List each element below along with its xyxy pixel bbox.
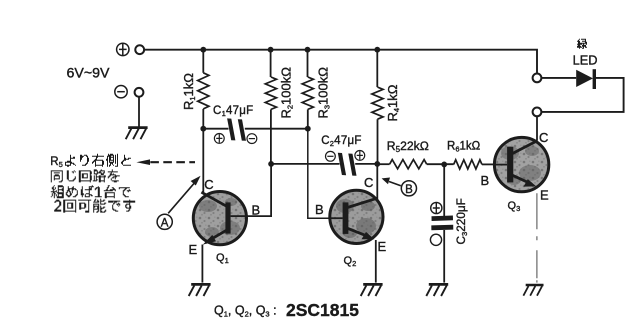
wire R6 to Q3 base: [482, 163, 495, 165]
svg-text:6V~9V: 6V~9V: [67, 66, 111, 82]
wire C1 net (Q1.C to Q2.B): [203, 128, 307, 130]
Q2 base wire inside: [331, 217, 343, 219]
wire minus terminal to ground: [138, 97, 140, 127]
node Q2 collector / C2 right: [374, 161, 380, 167]
wire C2 node to Q2 collector: [376, 164, 378, 200]
resistor R3: [302, 77, 313, 109]
LED diode triangle: [576, 70, 593, 87]
svg-text:B: B: [481, 173, 490, 188]
wire node to C3: [443, 164, 445, 216]
capacitor C3 (220uF) plates: [432, 216, 454, 222]
svg-text:LED: LED: [573, 52, 598, 67]
ground (Q3): [523, 285, 543, 296]
Q2 emitter stroke with arrow: [348, 228, 371, 237]
svg-text:R11kΩ: R11kΩ: [181, 73, 197, 110]
svg-text:C: C: [539, 130, 548, 145]
Q1 base bar: [225, 202, 230, 233]
wire LED socket to Q3 collector: [536, 116, 538, 140]
capacitor C1 (47uF) plates: [227, 118, 235, 140]
wire C3 to ground: [443, 230, 445, 283]
node rail-R3: [305, 47, 311, 53]
resistor R2: [265, 77, 276, 109]
wire Q2 emitter to ground: [375, 240, 377, 283]
svg-text:R2100kΩ: R2100kΩ: [279, 67, 295, 119]
Q3 collector stroke: [513, 141, 538, 154]
node Q2 base / C1 right: [305, 126, 311, 132]
wire R1 to node A1: [202, 109, 204, 129]
C2 minus mark: [326, 151, 336, 161]
wire R4 to Q2 collector node: [377, 119, 379, 164]
wire R1 node to Q1 collector: [202, 129, 204, 192]
svg-text:C247μF: C247μF: [321, 135, 361, 148]
LED socket terminal top: [533, 74, 542, 83]
svg-text:C147μF: C147μF: [213, 105, 253, 118]
svg-text:E: E: [378, 239, 387, 254]
svg-text:E: E: [189, 242, 198, 257]
Q1 emitter stroke with arrow: [206, 230, 227, 242]
label note line2: onaji kairo wo: [51, 169, 120, 182]
svg-text:B: B: [315, 202, 324, 217]
transistor Q1 (2SC1815) body: [193, 192, 246, 245]
terminal circle +: [135, 45, 144, 54]
dashed arrow (note pointer): [136, 159, 150, 165]
resistor R4: [372, 87, 383, 119]
svg-text:A: A: [161, 217, 169, 229]
svg-text:C: C: [364, 175, 373, 190]
wire C2 net (Q1.B to Q2.C): [271, 163, 377, 165]
ground (Q1): [189, 284, 211, 296]
svg-text:R3100kΩ: R3100kΩ: [316, 67, 332, 119]
node rail-R1: [200, 47, 206, 53]
svg-text:B: B: [252, 203, 261, 218]
minus supply symbol: [115, 86, 127, 98]
plus supply symbol: [117, 43, 129, 55]
Q1 collector stroke: [201, 192, 226, 206]
svg-text:C3220μF: C3220μF: [454, 198, 469, 244]
node rail-R2: [268, 47, 274, 53]
svg-text:E: E: [540, 188, 549, 203]
wire R2 to Q1 base node: [270, 109, 272, 163]
wire Q3 emitter to ground (faint): [536, 193, 538, 282]
wire rail to R4: [376, 50, 378, 87]
wire anode: [542, 77, 577, 79]
C1 plus mark: [214, 134, 224, 144]
ground (Q2): [361, 284, 383, 296]
LED cathode bar: [593, 69, 596, 89]
label midori (green) above LED: [577, 39, 587, 49]
wire Q2.C node to R5: [378, 163, 390, 165]
svg-text:R522kΩ: R522kΩ: [387, 139, 429, 154]
Q3 base bar: [507, 147, 513, 183]
svg-text:2SC1815: 2SC1815: [286, 300, 359, 320]
wire Q1 emitter to ground: [201, 245, 203, 283]
svg-text:C: C: [204, 177, 213, 192]
LED socket terminal bottom: [533, 108, 542, 117]
capacitor C2 (47uF) plates: [338, 153, 346, 175]
arrow B to Q2 collector: [389, 182, 401, 186]
Q2 collector stroke: [348, 198, 377, 207]
label note line4: 2 kai kanou desu: [54, 199, 135, 213]
transistor Q2 (2SC1815) body: [330, 190, 383, 243]
resistor R1: [198, 73, 209, 109]
C3 minus circle mark: [430, 234, 441, 245]
Q1 base wire inside: [231, 215, 247, 217]
C3 plus mark: [431, 202, 442, 213]
C1 minus mark: [247, 134, 257, 144]
wire rail to R3: [307, 50, 309, 77]
node Q1 collector: [200, 126, 206, 132]
Q3 emitter stroke with arrow: [513, 175, 532, 184]
wire R5 to node C3: [427, 163, 454, 165]
resistor R6: [454, 160, 482, 169]
C2 plus mark: [355, 151, 365, 161]
transistor Q3 (2SC1815) body: [494, 137, 548, 191]
terminal circle -: [135, 88, 144, 97]
circled A: [157, 214, 172, 229]
node Q1 base / C2 left: [268, 161, 274, 167]
wire R3 to Q2 base: [307, 109, 309, 128]
circled B: [401, 181, 416, 196]
svg-text:B: B: [405, 184, 413, 196]
wire rail to R2: [270, 50, 272, 77]
svg-text:R61kΩ: R61kΩ: [447, 141, 481, 154]
label note line3: kumeba 1 dai de: [51, 185, 131, 198]
Q3 base wire inside: [495, 164, 508, 166]
resistor R5: [390, 160, 427, 169]
wire rail to R1: [202, 50, 204, 73]
node rail-R4: [374, 47, 380, 53]
arrow A to Q1 collector: [168, 183, 194, 213]
svg-text:R41kΩ: R41kΩ: [385, 84, 401, 121]
ground (battery minus): [126, 128, 148, 140]
wire cathode loop: [542, 78, 624, 112]
node R5/R6/C3: [441, 162, 447, 168]
ground (C3): [426, 284, 448, 296]
wire: +V power rail: [144, 50, 537, 74]
Q2 base bar: [343, 202, 349, 234]
